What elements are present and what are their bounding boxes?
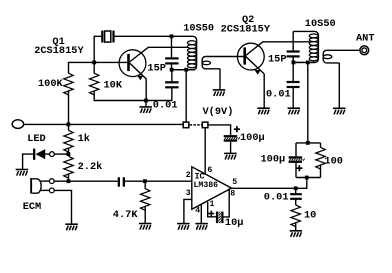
node junction 4.7K/pin2 (143, 179, 147, 183)
op-amp U1 LM386 triangle (192, 167, 232, 210)
transistor Q1 2CS1815Y (119, 47, 148, 80)
svg-text:2: 2 (186, 171, 191, 180)
wire 2.2k bottom (68, 174, 70, 181)
wire LED to ground (23, 154, 34, 169)
node junction pin5/zobel (294, 186, 298, 190)
svg-text:2CS1815Y: 2CS1815Y (221, 23, 271, 35)
svg-text:100µ: 100µ (240, 132, 265, 144)
label 2CS1815Y (Q2) (221, 23, 271, 35)
svg-text:0.01: 0.01 (153, 99, 178, 111)
resistor R1 100K (64, 73, 73, 95)
battery input terminal (12, 120, 23, 129)
wire 1k bottom (68, 148, 70, 154)
wire V9V to 100u decoupling (208, 125, 231, 135)
wire link2 to ground (338, 63, 340, 108)
label 10u (C7) (225, 217, 244, 229)
ECM terminal circle bottom (49, 188, 54, 193)
microphone ECM (30, 178, 49, 194)
ground at R6 (290, 231, 303, 237)
label ANT (356, 32, 375, 44)
wire 100u top stub (295, 143, 297, 157)
label 10S50 (L1) (183, 23, 214, 35)
capacitor C5 100u electrolytic (224, 135, 240, 142)
ground at ECM (65, 224, 78, 230)
node junction pair bottom / pin5 riser (305, 176, 309, 180)
resistor R5 4.7K (141, 189, 150, 211)
power connector square right (V 9V) (202, 122, 208, 128)
label Q2 (242, 14, 254, 26)
svg-text:15P: 15P (147, 62, 166, 74)
wire V node to 1k (68, 124, 70, 130)
inductor L1 10S50 (172, 36, 197, 69)
svg-text:3: 3 (186, 189, 191, 198)
wire C5 to ground (230, 142, 232, 154)
wire 100K bottom to V rail (68, 91, 70, 124)
wire pin1 to 10u (208, 202, 216, 217)
transistor Q2 2CS1815Y (237, 42, 264, 75)
wire zobel node to 0.01 (295, 188, 297, 193)
ground at pin3 (177, 224, 190, 230)
label 0.01 (C2) (153, 99, 178, 111)
label LM386 (194, 181, 219, 190)
label 15P (C1) (147, 62, 166, 74)
wire 100 bottom stub (320, 165, 322, 177)
capacitor C4 0.01 (287, 82, 300, 87)
svg-text:4.7K: 4.7K (113, 209, 139, 221)
label 4.7K (R5) (113, 209, 139, 221)
pin 8 label (230, 190, 235, 199)
svg-text:2CS1815Y: 2CS1815Y (34, 45, 84, 57)
wire coupling cap to pin2 (125, 180, 192, 182)
node junction crystal/10K/base rail (92, 61, 96, 65)
label ECM (23, 201, 42, 213)
wire 10K top stub (93, 62, 95, 73)
svg-text:100K: 100K (38, 78, 64, 90)
capacitor C9 100u electrolytic (289, 156, 305, 163)
pin 1 label (210, 200, 215, 209)
label Q1 (52, 36, 64, 48)
svg-text:V(9V): V(9V) (203, 106, 234, 118)
ECM terminal circle top (49, 179, 54, 184)
wire 10K bottom to emitter node (94, 91, 146, 100)
wire mic node to coupling cap (68, 180, 117, 182)
plus sign C9 (296, 165, 302, 171)
pin 4 label (195, 207, 200, 216)
node junction 1k/2.2k/LED (67, 152, 71, 156)
ground at Q2 emitter (257, 108, 270, 114)
wire 100u bottom stub (295, 163, 297, 178)
svg-text:10K: 10K (104, 80, 123, 92)
svg-text:LM386: LM386 (194, 181, 219, 190)
wire node down to 15P (171, 36, 173, 58)
svg-text:5: 5 (232, 178, 237, 187)
node junction Q1 emitter/ground (144, 99, 148, 103)
wire Q1 collector to coil tap (148, 46, 188, 48)
svg-text:1k: 1k (78, 133, 90, 145)
wire 10 ohm to ground (295, 223, 297, 231)
svg-text:8: 8 (230, 190, 235, 199)
wire LED node (54, 153, 68, 155)
wire 15P to bottom node (171, 64, 173, 69)
capacitor C1 15P (165, 58, 178, 63)
label 10K (104, 80, 123, 92)
coupling link loop to antenna (323, 50, 359, 63)
svg-text:LED: LED (27, 133, 46, 145)
crystal X1 (101, 31, 114, 43)
antenna jack ANT (360, 46, 369, 55)
wire V node to power circle (68, 123, 183, 125)
svg-text:4: 4 (195, 207, 200, 216)
label 100 (R7) (324, 155, 343, 167)
wire 0.01 top stub (171, 70, 173, 82)
node junction V-rail / 100K / 1k (67, 123, 71, 127)
wire pin4 to ground (200, 204, 202, 223)
svg-text:ANT: ANT (356, 32, 375, 44)
wire mic bottom to ground (54, 190, 71, 224)
wire 100K top stub (68, 62, 70, 74)
wire emitter node ground stub (145, 101, 147, 107)
wire Q2 collector to coil2 tap (263, 41, 310, 43)
node junction 15P2/0.01 (292, 61, 296, 65)
svg-text:1: 1 (210, 200, 215, 209)
wire 100 top stub (320, 143, 322, 148)
wire pin8 to 10u (224, 188, 230, 217)
resistor R7 100 (316, 147, 325, 169)
wire crystal right leg (115, 35, 172, 37)
LED D1 (33, 149, 50, 160)
pin 3 label (186, 189, 191, 198)
label 100u (C5) (240, 132, 265, 144)
node junction crystal/coil/15P (170, 34, 174, 38)
wire pin3 to ground (184, 199, 192, 223)
label 100K (38, 78, 64, 90)
label V(9V) (203, 106, 234, 118)
label 0.01 (C4) (266, 88, 291, 100)
node junction pair top (306, 141, 310, 145)
capacitor C3 15P (287, 52, 300, 57)
wire 0.01#2 to ground (292, 87, 294, 108)
label 0.01 (C8) (264, 191, 289, 203)
svg-text:10S50: 10S50 (305, 18, 336, 30)
svg-text:10: 10 (304, 209, 316, 221)
pin 5 label (232, 178, 237, 187)
label 10 (R6) (304, 209, 316, 221)
resistor R3 1k (64, 130, 73, 152)
ground at C5 (224, 153, 237, 159)
wire Q2 emitter down (263, 74, 265, 108)
svg-text:0.01: 0.01 (264, 191, 289, 203)
wire C8 to 10 ohm (295, 200, 297, 205)
ground at C4 (288, 108, 301, 114)
ground at pin4 (195, 224, 208, 230)
wire coil2 top node down to 15P (292, 31, 294, 50)
svg-text:15P: 15P (268, 54, 287, 66)
ground at LED (16, 170, 29, 176)
wire 0.01#2 top stub (292, 62, 294, 81)
dashed battery link (190, 124, 202, 126)
wire 15P2 to tank2 bottom node (292, 57, 294, 62)
node junction tank bottom / V-rail drop (184, 68, 188, 72)
node junction 15P/0.01 (170, 68, 174, 72)
ground at 4.7K (139, 224, 152, 230)
label 15P (C3) (268, 54, 287, 66)
resistor R6 10 (291, 205, 300, 227)
label LED (27, 133, 46, 145)
svg-text:100: 100 (324, 155, 343, 167)
label 2.2k (R4) (78, 161, 103, 173)
wire pair bottom (296, 177, 321, 179)
wire tank2 drop to output pair (307, 62, 309, 142)
label 10S50 (L2) (305, 18, 336, 30)
svg-text:10µ: 10µ (225, 217, 244, 229)
label IC (195, 173, 205, 182)
svg-text:ECM: ECM (23, 201, 42, 213)
node junction tank2 bottom / drop (306, 61, 310, 65)
pin 6 label (207, 166, 212, 175)
coupling link loop to Q2 base (202, 57, 243, 69)
wire V9V down to pin6 (204, 128, 206, 175)
svg-text:100µ: 100µ (261, 153, 286, 165)
svg-text:10S50: 10S50 (183, 23, 214, 35)
node junction mic/2.2k (67, 179, 71, 183)
svg-text:2.2k: 2.2k (78, 161, 103, 173)
wire V-rail drop from tank bottom (185, 70, 187, 123)
pin 2 label (186, 171, 191, 180)
wire link1 to ground (219, 69, 221, 90)
wire crystal left leg down to base rail (94, 36, 101, 62)
wire tank2 bottom (293, 61, 315, 63)
power connector square left (183, 122, 189, 128)
ground at link2 (333, 108, 346, 114)
resistor R4 2.2k (64, 156, 73, 178)
inductor L2 10S50 (293, 31, 318, 62)
ground at link1 (213, 90, 226, 96)
wire 4.7K to ground (144, 207, 146, 224)
wire base rail of Q1 (100K top to base) (69, 61, 128, 63)
svg-text:6: 6 (207, 166, 212, 175)
LED terminal circle (50, 152, 55, 157)
wire input to V node (23, 123, 69, 125)
wire 4.7K top stub (144, 181, 146, 189)
resistor R2 10K (89, 73, 98, 95)
wire pair top (296, 142, 321, 144)
wire pin5 output (232, 178, 307, 189)
capacitor C8 0.01 (290, 194, 302, 199)
capacitor C7 10u electrolytic (216, 212, 224, 224)
label 1k (R3) (78, 133, 90, 145)
plus sign C7 (208, 211, 214, 217)
capacitor C6 coupling (118, 177, 125, 186)
plus sign C5 (234, 126, 240, 132)
capacitor C2 0.01 (165, 82, 178, 87)
svg-text:0.01: 0.01 (266, 88, 291, 100)
wire 0.01 bottom to emitter wire (146, 88, 172, 101)
ground at Q1 emitter (139, 107, 152, 113)
label 100u (C9) (261, 153, 286, 165)
wire tank bottom (172, 69, 196, 71)
wire mic top to node (54, 180, 68, 182)
wire Q1 emitter down (145, 79, 147, 101)
label 2CS1815Y (Q1) (34, 45, 84, 57)
